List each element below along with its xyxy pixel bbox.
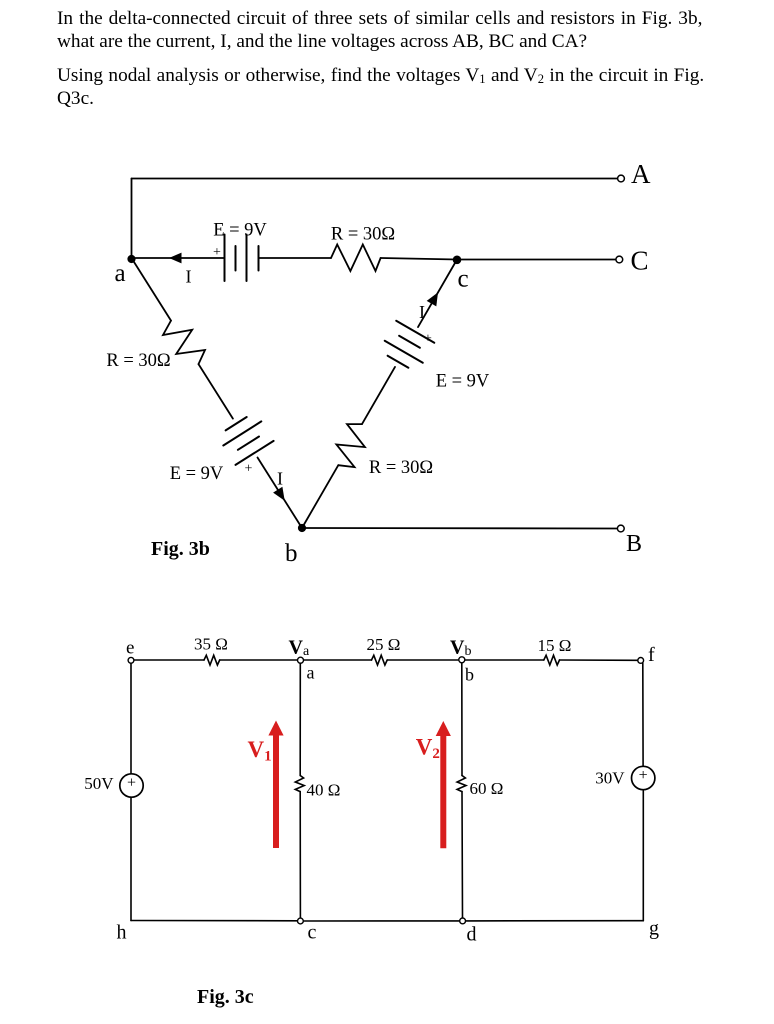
node f open circle: [638, 658, 644, 664]
svg-text:B: B: [626, 531, 642, 557]
svg-text:+: +: [213, 245, 221, 260]
resistor R=30ohm top branch: [331, 245, 381, 272]
Vb rail down to 60ohm: [461, 663, 463, 775]
svg-text:+: +: [245, 462, 253, 477]
wire 25ohm to Vb: [387, 659, 458, 661]
wire top rail to terminal A: [132, 178, 618, 180]
svg-text:50V: 50V: [84, 774, 114, 793]
node c open circle: [298, 918, 304, 924]
wire left resistor to battery: [199, 364, 233, 419]
svg-text:d: d: [467, 924, 477, 946]
svg-text:+: +: [639, 767, 648, 784]
svg-text:V1: V1: [248, 737, 272, 765]
svg-text:R = 30Ω: R = 30Ω: [369, 458, 433, 478]
bottom wire h to c: [131, 920, 297, 922]
V1 red arrow head: [268, 721, 283, 736]
current arrow I right branch (points to c): [427, 292, 438, 306]
svg-text:I: I: [419, 302, 425, 322]
bottom wire c to d: [304, 920, 460, 922]
node b junction dot: [298, 524, 306, 532]
30V voltage source circle: [632, 766, 655, 789]
resistor 25 ohm: [372, 655, 388, 665]
resistor 60 ohm vertical: [457, 776, 466, 792]
wire resistor to node c: [381, 258, 457, 260]
wire right battery to node c: [418, 260, 457, 328]
svg-text:a: a: [115, 260, 126, 287]
svg-text:R = 30Ω: R = 30Ω: [106, 351, 170, 371]
svg-text:40 Ω: 40 Ω: [307, 781, 341, 800]
paragraph 1: [57, 9, 702, 29]
terminal C open circle: [616, 256, 623, 263]
svg-text:E = 9V: E = 9V: [170, 464, 224, 484]
node d open circle: [460, 918, 466, 924]
top wire e to 35ohm: [134, 659, 204, 661]
svg-text:Va: Va: [289, 637, 310, 660]
svg-text:E = 9V: E = 9V: [213, 221, 267, 241]
terminal B open circle: [617, 525, 624, 532]
node e open circle: [128, 657, 134, 663]
svg-text:g: g: [649, 918, 659, 940]
wire Va to 25ohm: [304, 659, 372, 661]
svg-text:I: I: [186, 267, 192, 287]
wire 15ohm to f: [560, 659, 638, 661]
battery E=9V right branch plates: [388, 356, 409, 368]
terminal A open circle: [618, 175, 625, 182]
V2 red arrow shaft: [440, 735, 446, 849]
wire a to battery (top branch): [136, 257, 225, 259]
node c junction dot: [453, 255, 462, 264]
node Vb open circle: [459, 657, 465, 663]
node Va open circle: [298, 657, 304, 663]
svg-text:e: e: [126, 638, 134, 659]
svg-text:25 Ω: 25 Ω: [367, 635, 401, 654]
Va rail 40ohm down to node c: [299, 792, 301, 918]
wire right resistor to battery: [362, 367, 395, 424]
svg-text:Fig. 3c: Fig. 3c: [197, 986, 254, 1008]
50V voltage source circle: [120, 774, 143, 797]
svg-text:Vb: Vb: [450, 637, 471, 660]
wire a to top rail: [131, 179, 133, 259]
svg-text:a: a: [307, 663, 315, 683]
wire 35ohm to Va: [220, 659, 297, 661]
svg-text:15 Ω: 15 Ω: [538, 636, 572, 655]
svg-text:V2: V2: [416, 735, 440, 763]
wire left battery to node b: [258, 458, 303, 529]
svg-text:+: +: [424, 332, 432, 347]
svg-text:E = 9V: E = 9V: [436, 372, 490, 392]
right rail g up to 30V source: [642, 790, 644, 921]
svg-text:c: c: [458, 266, 469, 293]
node a junction dot: [127, 255, 135, 263]
svg-text:R = 30Ω: R = 30Ω: [331, 225, 395, 245]
resistor R=30ohm right branch: [336, 424, 365, 467]
resistor R=30ohm left branch: [163, 321, 205, 365]
svg-text:h: h: [117, 922, 127, 944]
svg-text:60 Ω: 60 Ω: [470, 779, 504, 798]
wire node b to terminal B: [302, 527, 617, 530]
resistor 35 ohm: [204, 655, 220, 665]
wire b to right resistor: [304, 465, 338, 524]
paragraph 2: [57, 66, 704, 86]
svg-text:C: C: [631, 246, 649, 276]
Vb rail 60ohm down to node d: [461, 792, 464, 918]
svg-text:35 Ω: 35 Ω: [194, 635, 228, 654]
svg-text:I: I: [277, 469, 283, 489]
right rail 30V source up to f: [642, 663, 644, 766]
svg-text:b: b: [285, 540, 298, 567]
svg-text:f: f: [648, 644, 655, 666]
current arrow I top branch (points left): [169, 253, 182, 264]
wire top battery to resistor: [259, 257, 332, 259]
bottom wire d to g: [466, 920, 644, 922]
left rail e down to 50V source: [130, 664, 132, 774]
resistor 40 ohm vertical: [295, 776, 304, 792]
V1 red arrow shaft: [273, 734, 279, 848]
battery E=9V left branch plates: [226, 417, 247, 430]
svg-text:b: b: [465, 665, 474, 685]
svg-text:A: A: [631, 159, 651, 189]
Va rail down to 40ohm: [299, 664, 301, 776]
svg-text:+: +: [127, 775, 136, 792]
current arrow I left branch (points to b): [273, 487, 285, 501]
svg-text:30V: 30V: [595, 769, 625, 788]
wire a to left resistor: [134, 261, 171, 320]
wire node c to terminal C: [457, 259, 615, 261]
svg-text:c: c: [308, 922, 317, 944]
wire Vb to 15ohm: [465, 659, 544, 661]
svg-text:Fig. 3b: Fig. 3b: [151, 538, 210, 560]
resistor 15 ohm: [544, 655, 560, 665]
left rail 50V source down to h: [130, 797, 132, 920]
battery E=9V top branch plates: [224, 235, 226, 282]
V2 red arrow head: [436, 721, 451, 736]
